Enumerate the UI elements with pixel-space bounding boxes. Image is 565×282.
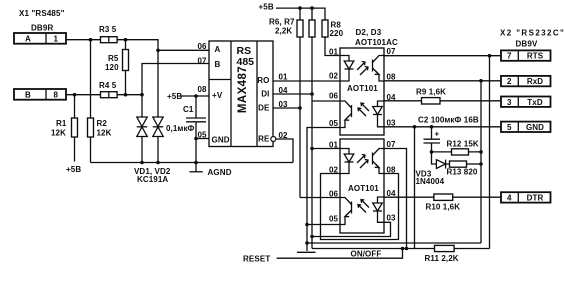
svg-text:R3 5: R3 5	[99, 25, 117, 34]
ground AGND symbol	[195, 163, 197, 172]
wire 08 to RxD	[384, 80, 501, 82]
wire D3 pin01 stub	[312, 148, 340, 150]
svg-text:RESET: RESET	[243, 255, 270, 264]
svg-text:R4 5: R4 5	[99, 81, 117, 90]
svg-text:5: 5	[507, 123, 512, 132]
D3 ch2 light arrows	[358, 205, 366, 213]
wire DI	[273, 93, 312, 95]
wire pin06 stub	[158, 49, 209, 51]
connector X2 pin 3 TxD	[501, 97, 551, 107]
svg-text:C2 100мкФ 16В: C2 100мкФ 16В	[418, 116, 479, 125]
svg-text:2,2K: 2,2K	[275, 27, 292, 36]
wire C2 ground column	[414, 127, 416, 249]
svg-text:AGND: AGND	[208, 168, 232, 177]
resistor R12	[432, 151, 482, 153]
svg-text:AOT101AC: AOT101AC	[355, 38, 398, 47]
wire 07 to RTS	[384, 55, 501, 57]
svg-text:C1: C1	[183, 105, 194, 114]
D3 ch1 light arrows	[357, 155, 365, 164]
svg-text:R5: R5	[108, 54, 119, 63]
svg-text:7: 7	[507, 52, 512, 61]
svg-text:DI: DI	[261, 90, 269, 99]
connector X2 pin 7 RTS	[501, 50, 551, 60]
svg-text:B: B	[25, 91, 31, 100]
wire A net	[66, 40, 158, 116]
svg-text:12K: 12K	[51, 129, 66, 138]
svg-text:01: 01	[329, 48, 339, 57]
RE bubble	[271, 137, 276, 142]
connector X1 pin B box	[14, 89, 66, 100]
zener pair VD2	[157, 116, 159, 117]
resistor R8	[322, 20, 328, 37]
wire 03 to GND	[384, 126, 501, 128]
wire pin07 stub	[142, 64, 209, 95]
svg-text:DB9R: DB9R	[31, 24, 53, 33]
svg-text:3: 3	[507, 98, 512, 107]
svg-text:07: 07	[387, 47, 397, 56]
wire D2 pin05 to ground column	[307, 128, 340, 252]
capacitor C2	[431, 127, 433, 139]
svg-text:R13 820: R13 820	[447, 168, 478, 177]
D2 ch1 light arrows	[357, 62, 365, 71]
svg-text:DTR: DTR	[527, 194, 544, 203]
wire RESET	[277, 249, 403, 259]
svg-text:05: 05	[329, 214, 339, 223]
svg-text:RTS: RTS	[527, 52, 544, 61]
svg-text:1N4004: 1N4004	[416, 177, 445, 186]
svg-text:R11 2,2K: R11 2,2K	[425, 254, 459, 263]
node A-R2 junction	[89, 38, 93, 42]
svg-text:4: 4	[507, 194, 512, 203]
svg-text:08: 08	[198, 85, 208, 94]
wire RE loop to AGND	[276, 139, 293, 163]
svg-text:R9 1,6K: R9 1,6K	[416, 88, 446, 97]
wire D3 pin07 column	[384, 149, 407, 249]
connector X2 pin 5 GND	[501, 122, 551, 132]
svg-text:02: 02	[329, 72, 339, 81]
svg-text:07: 07	[387, 140, 397, 149]
svg-text:R2: R2	[97, 119, 108, 128]
svg-text:+V: +V	[212, 91, 223, 100]
node B-VD1 junction	[140, 93, 144, 97]
resistor R4	[101, 92, 118, 98]
svg-text:X2 "RS232C": X2 "RS232C"	[500, 29, 565, 38]
D3 ch2 phototransistor	[351, 202, 353, 214]
svg-text:KC191A: KC191A	[137, 175, 168, 184]
svg-text:A: A	[25, 35, 31, 44]
svg-text:220: 220	[330, 29, 344, 38]
wire chip GND stub	[196, 138, 209, 140]
D2 ch1 phototransistor	[372, 60, 374, 72]
svg-text:D2, D3: D2, D3	[356, 28, 382, 37]
node VD2 ground junction	[156, 161, 160, 165]
svg-text:TxD: TxD	[527, 98, 543, 107]
op chip U1 MAX487	[209, 41, 273, 147]
wire RxD pull column	[480, 81, 482, 243]
resistor R2	[90, 40, 92, 163]
wire B net	[66, 94, 142, 96]
resistor R13	[450, 161, 467, 167]
wire D3 pin03 loop	[312, 222, 391, 236]
D3 ch2 LED	[378, 197, 385, 203]
resistor R1	[74, 95, 76, 162]
D3 ch1 LED	[340, 149, 349, 155]
svg-text:01: 01	[279, 72, 289, 81]
svg-text:1: 1	[54, 35, 59, 44]
node B-R1 junction	[73, 93, 77, 97]
node C1 GND junction	[194, 137, 198, 141]
svg-text:R12 15K: R12 15K	[447, 139, 479, 148]
D2 ch2 LED	[378, 101, 385, 107]
svg-text:03: 03	[387, 214, 397, 223]
wire D3 pin02 loop	[321, 174, 399, 240]
wire D3 pin06 stub from DE column	[300, 197, 340, 199]
node VD1 ground junction	[140, 161, 144, 165]
svg-text:120: 120	[105, 63, 119, 72]
wire DTR with R10	[384, 196, 501, 198]
wire DE	[273, 107, 300, 109]
D2 ch2 light arrows	[358, 108, 366, 116]
svg-text:05: 05	[329, 119, 339, 128]
connector X2 pin 2 RxD	[501, 76, 551, 86]
svg-text:0,1мкФ: 0,1мкФ	[166, 124, 195, 133]
resistor R10	[434, 194, 453, 200]
svg-text:RO: RO	[257, 76, 269, 85]
optocoupler D2 box	[340, 48, 384, 135]
wire DI jog to opto pin06	[312, 100, 340, 102]
svg-text:RxD: RxD	[527, 77, 543, 86]
svg-text:A: A	[215, 45, 221, 54]
svg-text:06: 06	[198, 42, 208, 51]
svg-text:DB9V: DB9V	[516, 40, 538, 49]
svg-text:GND: GND	[212, 136, 230, 145]
resistor R6	[299, 8, 301, 20]
svg-text:R6, R7: R6, R7	[269, 17, 295, 26]
svg-text:MAX487: MAX487	[237, 66, 249, 113]
resistor R9	[422, 98, 441, 104]
resistor R3	[101, 37, 118, 43]
svg-text:2: 2	[507, 77, 512, 86]
capacitor C1	[195, 96, 197, 118]
svg-text:8: 8	[54, 91, 59, 100]
wire 04 to TxD with R9	[384, 100, 501, 102]
D2 ch1 LED	[340, 56, 349, 62]
svg-text:07: 07	[198, 57, 208, 66]
svg-text:06: 06	[329, 91, 339, 100]
wire RO to opto pin02	[273, 80, 340, 82]
D2 ch2 phototransistor	[351, 105, 353, 117]
connector X1 pin A box	[14, 33, 66, 44]
ground symbol bottom	[297, 251, 316, 253]
svg-text:+5B: +5B	[259, 3, 274, 12]
node B-R5 junction	[124, 93, 128, 97]
resistor R11	[435, 245, 455, 251]
resistor R7	[311, 8, 313, 20]
diode VD3	[432, 152, 437, 164]
wire ON/OFF run H4 with R11	[312, 248, 490, 250]
connector X2 pin 4 DTR	[501, 192, 551, 202]
zener pair VD1	[141, 95, 143, 117]
svg-text:X1 "RS485": X1 "RS485"	[19, 9, 65, 18]
wire D3 pin05 stub	[307, 224, 340, 226]
wire ground link H3	[307, 242, 481, 244]
wire RTS column	[489, 56, 491, 249]
svg-text:AOT101: AOT101	[348, 184, 379, 193]
svg-text:DE: DE	[258, 104, 270, 113]
svg-text:ON/OFF: ON/OFF	[351, 249, 382, 258]
svg-text:+: +	[435, 130, 440, 139]
svg-text:R10 1,6K: R10 1,6K	[426, 203, 461, 212]
node A pin06 junction	[156, 49, 160, 53]
svg-text:05: 05	[198, 130, 208, 139]
resistor R5	[125, 40, 127, 95]
wire analog ground rail	[91, 162, 294, 164]
node A-R5 junction	[124, 38, 128, 42]
svg-text:AOT101: AOT101	[347, 84, 378, 93]
D3 ch1 phototransistor	[372, 153, 374, 165]
svg-text:+5B: +5B	[66, 165, 81, 174]
svg-text:RE: RE	[258, 135, 270, 144]
svg-text:GND: GND	[526, 123, 544, 132]
svg-text:12K: 12K	[97, 129, 112, 138]
svg-text:R1: R1	[56, 119, 67, 128]
svg-text:B: B	[215, 60, 221, 69]
optocoupler D3 box	[340, 139, 384, 233]
